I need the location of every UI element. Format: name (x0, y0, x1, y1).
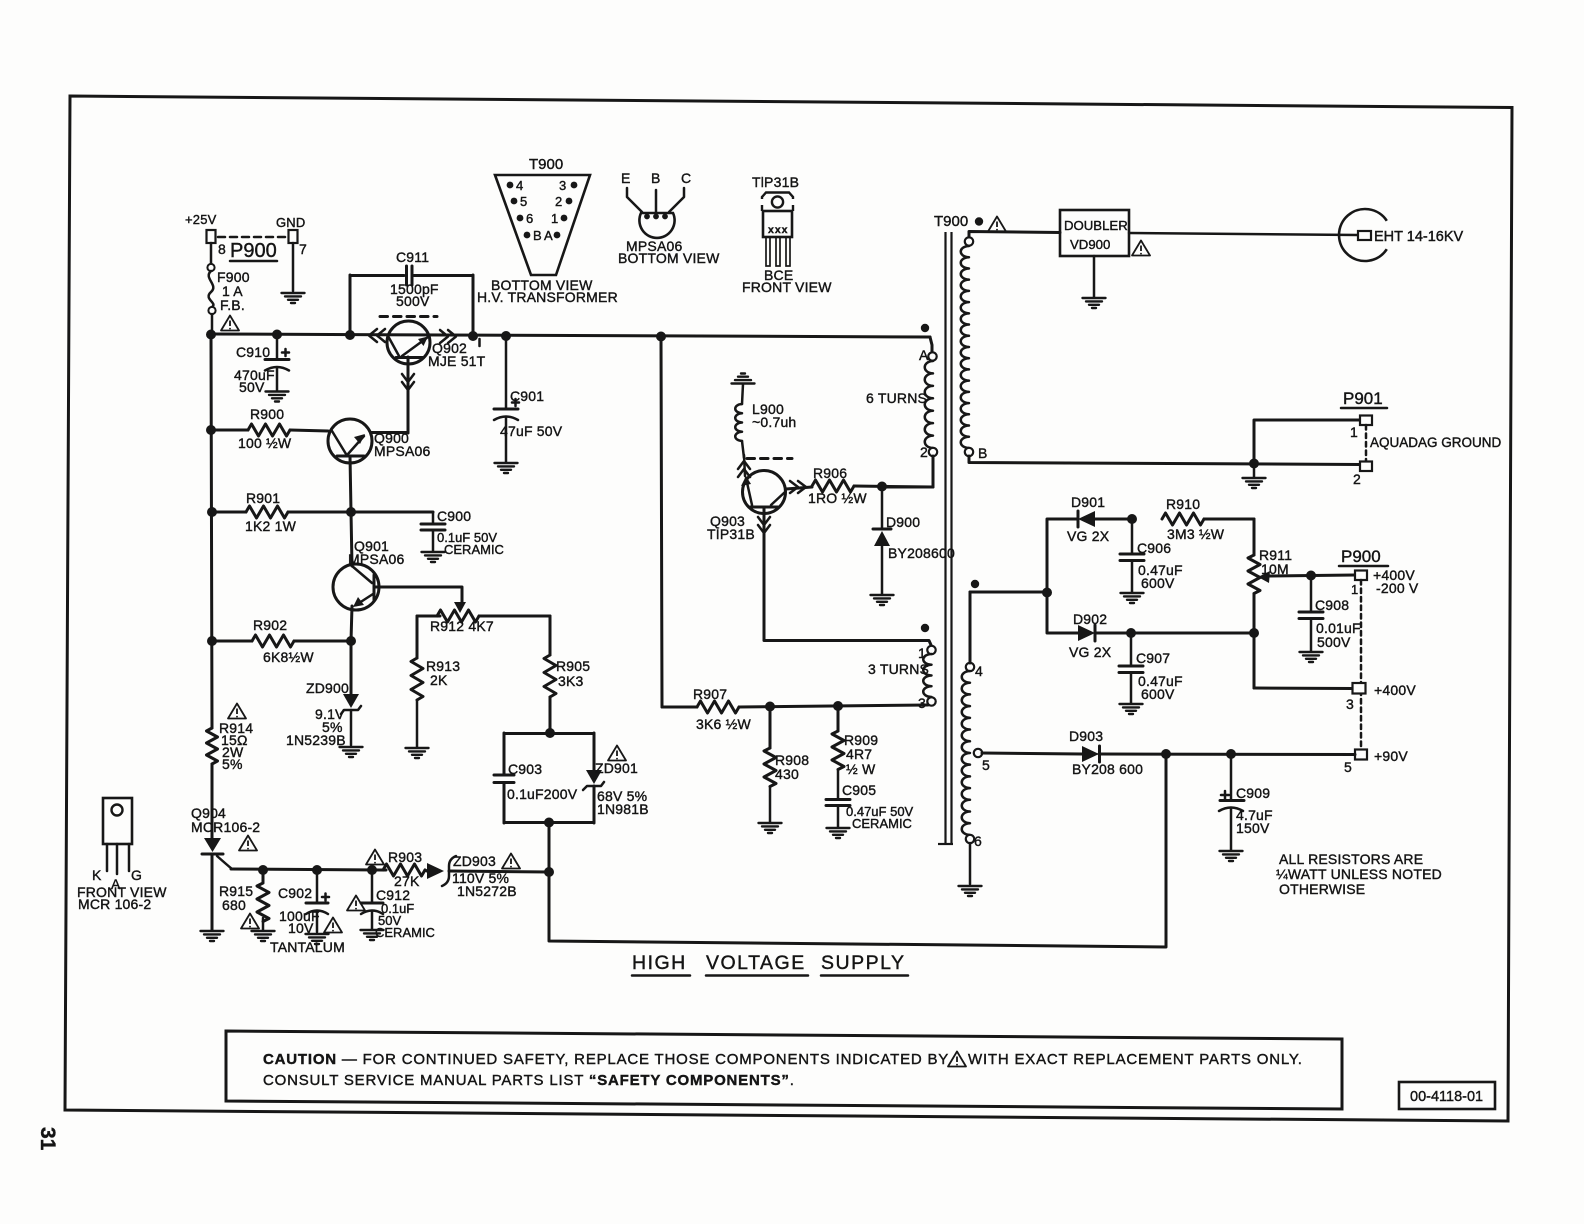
node C910 tap (272, 330, 282, 340)
resistor R900 (211, 406, 328, 451)
svg-text:CERAMIC: CERAMIC (852, 816, 912, 831)
svg-text:5%: 5% (222, 756, 243, 772)
svg-text:xxx: xxx (768, 224, 789, 236)
svg-text:FRONT VIEW: FRONT VIEW (742, 279, 832, 295)
node C911 right (468, 331, 478, 341)
svg-text:¼WATT UNLESS NOTED: ¼WATT UNLESS NOTED (1276, 866, 1442, 882)
svg-text:3K3: 3K3 (558, 673, 584, 689)
svg-text:6: 6 (526, 211, 533, 226)
svg-text:P900: P900 (1341, 547, 1381, 566)
svg-text:~0.7uh: ~0.7uh (752, 414, 796, 430)
connector P900 pin 8 (+25V) (185, 212, 226, 257)
capacitor C906 (1120, 519, 1183, 592)
node C908 tap (1306, 571, 1316, 581)
svg-text:47uF 50V: 47uF 50V (500, 423, 563, 439)
svg-text:10M: 10M (1261, 561, 1289, 577)
svg-text:BOTTOM VIEW: BOTTOM VIEW (618, 250, 720, 266)
svg-text:R907: R907 (693, 686, 727, 702)
svg-text:CONSULT SERVICE MANUAL PARTS L: CONSULT SERVICE MANUAL PARTS LIST “SAFET… (263, 1072, 795, 1089)
resistor R914 (207, 704, 254, 773)
ground (C910) (266, 392, 289, 402)
svg-text:C900: C900 (437, 508, 471, 524)
wire pin4 riser to doubler diodes (970, 592, 1047, 663)
ground (C902) (306, 934, 329, 944)
potentiometer R912 (417, 602, 550, 634)
transistor Q902 MJE51T (380, 317, 486, 370)
svg-text:B: B (533, 228, 542, 243)
zener ZD903 (427, 853, 549, 899)
svg-text:3 TURNS: 3 TURNS (868, 661, 929, 677)
wire dashes at Q903 (747, 457, 792, 460)
svg-text:+400V: +400V (1374, 682, 1416, 698)
svg-text:CERAMIC: CERAMIC (375, 925, 435, 940)
svg-text:6K8½W: 6K8½W (263, 649, 314, 665)
svg-text:680: 680 (222, 897, 246, 913)
svg-text:CERAMIC: CERAMIC (444, 542, 504, 557)
svg-text:5: 5 (982, 757, 990, 773)
ground (Q904 cathode) (201, 931, 224, 941)
node ZD903 junction (544, 867, 554, 877)
svg-text:1N5239B: 1N5239B (286, 732, 346, 748)
ground (C908) (1300, 652, 1323, 662)
svg-text:B: B (978, 445, 988, 461)
ground (GND pin 7) (282, 293, 305, 303)
wire pin6 to ground (969, 843, 972, 884)
wire secondary top to doubler (969, 232, 1060, 238)
svg-text:500V: 500V (396, 293, 430, 309)
svg-text:OTHERWISE: OTHERWISE (1279, 881, 1365, 897)
capacitor C900 (421, 508, 504, 557)
label P900 (230, 240, 277, 262)
svg-text:E: E (621, 170, 631, 186)
svg-text:6: 6 (974, 833, 982, 849)
svg-text:-200 V: -200 V (1376, 580, 1419, 596)
node C902 tap (312, 865, 322, 875)
ground (C909) (1220, 851, 1243, 861)
node R900 tap (206, 425, 216, 435)
connector P900 pin 7 (GND) (276, 215, 307, 257)
node phasing dot (secondary top) (978, 221, 980, 223)
node C903 box top (545, 728, 555, 738)
doubler VD900 (1060, 210, 1150, 256)
ground (R908) (759, 823, 782, 833)
svg-text:C903: C903 (508, 761, 542, 777)
svg-text:3K6 ½W: 3K6 ½W (696, 716, 751, 732)
svg-text:R910: R910 (1166, 496, 1200, 512)
svg-text:R912 4K7: R912 4K7 (430, 618, 494, 634)
wire main +25V rail horizontal (211, 334, 930, 337)
svg-text:+25V: +25V (185, 212, 217, 227)
transistor Q901 MPSA06 (333, 512, 404, 610)
wire Q901 emitter down (351, 606, 352, 641)
note all resistors (1276, 851, 1442, 897)
capacitor C902 (270, 870, 345, 955)
resistor R905 (544, 616, 590, 733)
resistor R913 (411, 616, 460, 747)
svg-text:MJE 51T: MJE 51T (428, 353, 486, 369)
svg-text:A: A (544, 228, 553, 243)
wire pin7 to ground (292, 243, 295, 291)
svg-text:1: 1 (551, 211, 558, 226)
svg-text:C906: C906 (1137, 540, 1171, 556)
svg-text:1: 1 (1351, 582, 1358, 597)
svg-text:VG 2X: VG 2X (1067, 528, 1110, 544)
diode D900 BY208600 (873, 487, 955, 594)
wire chevrons into Q903 (738, 455, 750, 477)
ground (ZD900) (340, 747, 363, 757)
svg-text:3: 3 (1346, 696, 1354, 712)
svg-text:100 ½W: 100 ½W (238, 435, 292, 451)
resistor R910 (1162, 496, 1254, 542)
svg-text:1N5272B: 1N5272B (457, 883, 517, 899)
resistor R901 (212, 490, 433, 534)
wire Q903 collector to R906 (786, 487, 812, 489)
node D901/D902 left junction (1042, 588, 1052, 598)
svg-text:1: 1 (918, 645, 926, 661)
connector P900 (right) (1339, 547, 1419, 775)
node R902 tap (207, 636, 217, 646)
node C909 tap (1226, 749, 1236, 759)
svg-text:GND: GND (276, 215, 306, 230)
svg-text:B: B (651, 170, 661, 186)
node phasing dot (A) (921, 324, 929, 332)
fuse F900 (207, 243, 249, 334)
ground (D900) (871, 595, 894, 605)
connector P901 (1341, 389, 1502, 487)
svg-text:D900: D900 (886, 514, 920, 530)
svg-text:P900: P900 (230, 240, 277, 262)
ground (R913) (406, 748, 429, 758)
capacitor C903 and zener ZD901 loop (494, 733, 594, 823)
wire pin2 to R906 node (882, 456, 933, 487)
node C912 tap (367, 865, 377, 875)
node R908 tap (765, 702, 775, 712)
svg-text:4: 4 (975, 663, 983, 679)
svg-text:C910: C910 (236, 344, 270, 360)
capacitor C910 (234, 334, 289, 395)
svg-text:5: 5 (1344, 759, 1352, 775)
node R909 tap (833, 701, 843, 711)
resistor R906 (808, 465, 933, 506)
svg-text:VD900: VD900 (1070, 237, 1110, 252)
wire (dashed interconnect pin8 to pin7) (218, 236, 288, 239)
svg-text:T900: T900 (529, 156, 563, 173)
diode D902 VG 2X (1047, 592, 1254, 660)
diode D901 VG 2X (1047, 494, 1132, 592)
svg-text:G: G (131, 867, 142, 883)
svg-text:0.1uF200V: 0.1uF200V (507, 786, 578, 802)
svg-text:R905: R905 (556, 658, 590, 674)
node C907 tap (1126, 628, 1136, 638)
ground (C906) (1121, 593, 1144, 603)
svg-text:430: 430 (775, 766, 799, 782)
svg-text:WITH EXACT REPLACEMENT PARTS O: WITH EXACT REPLACEMENT PARTS ONLY. (968, 1051, 1303, 1068)
capacitor C901 (494, 336, 563, 462)
svg-text:C909: C909 (1236, 785, 1270, 801)
SCR Q904 MCR106-2 (191, 805, 260, 930)
node R915 tap (258, 865, 268, 875)
node P901 ground tap (1249, 459, 1259, 469)
svg-text:R901: R901 (246, 490, 280, 506)
svg-text:EHT 14-16KV: EHT 14-16KV (1374, 229, 1464, 245)
resistor R915 (219, 870, 269, 930)
resistor R902 (212, 617, 351, 665)
doc number box (1399, 1082, 1495, 1109)
winding secondary top (EHT) (961, 232, 988, 461)
svg-text:7: 7 (299, 241, 307, 257)
EHT anode cap connector (1339, 209, 1464, 261)
svg-text:3: 3 (559, 178, 566, 193)
capacitor C909 (1219, 754, 1273, 850)
transistor Q903 TIP31B (707, 471, 786, 543)
svg-text:VG 2X: VG 2X (1069, 644, 1112, 660)
svg-text:R900: R900 (250, 406, 284, 422)
svg-text:00-4118-01: 00-4118-01 (1410, 1089, 1483, 1105)
winding secondary bottom (taps 4,5,6) (962, 592, 990, 849)
svg-text:27K: 27K (394, 873, 420, 889)
ground (P901) (1253, 463, 1256, 477)
node C901 tap (501, 331, 511, 341)
node Q901 base tap (346, 507, 356, 517)
svg-text:ALL RESISTORS ARE: ALL RESISTORS ARE (1279, 851, 1423, 867)
svg-text:MPSA06: MPSA06 (348, 551, 404, 567)
svg-text:HIGH: HIGH (632, 952, 687, 974)
svg-text:SUPPLY: SUPPLY (821, 952, 906, 974)
ground (T900 pin6) (959, 886, 982, 896)
svg-text:600V: 600V (1141, 575, 1175, 591)
wire chevrons Q902 left (369, 329, 385, 342)
ground (doubler) (1083, 298, 1106, 308)
node C911 left (345, 330, 355, 340)
wire Q902 emitter down to Q900 (371, 357, 414, 433)
svg-text:D903: D903 (1069, 728, 1103, 744)
svg-text:R902: R902 (253, 617, 287, 633)
wire long drop to R907 (661, 336, 662, 707)
resistor R908 (764, 707, 809, 822)
wire chevrons Q903 collector (790, 481, 806, 493)
wire secondary B to P901 (969, 456, 1360, 465)
svg-text:MCR106-2: MCR106-2 (191, 819, 260, 835)
ground (C901) (495, 463, 518, 473)
svg-text:31: 31 (36, 1127, 59, 1151)
wire Q901 collector to R912 (375, 587, 462, 603)
node C903 box bottom (544, 818, 554, 828)
svg-text:H.V. TRANSFORMER: H.V. TRANSFORMER (477, 289, 618, 305)
svg-text:1RO ½W: 1RO ½W (808, 490, 867, 506)
svg-text:C907: C907 (1136, 650, 1170, 666)
potentiometer R911 (1248, 519, 1355, 688)
svg-text:C911: C911 (396, 249, 429, 265)
svg-text:ZD901: ZD901 (595, 760, 638, 776)
svg-text:TIP31B: TIP31B (707, 526, 755, 542)
TIP31B front view (742, 174, 832, 295)
svg-text:50V: 50V (239, 379, 265, 395)
wire chevrons Q902 right (440, 330, 456, 343)
svg-text:C905: C905 (842, 782, 876, 798)
svg-text:T900: T900 (934, 213, 968, 230)
svg-text:C908: C908 (1315, 597, 1349, 613)
svg-text:150V: 150V (1236, 820, 1270, 836)
capacitor C908 (1299, 576, 1361, 651)
svg-text:R903: R903 (388, 849, 422, 865)
winding 3 TURNS (868, 645, 936, 711)
svg-text:BY208 600: BY208 600 (1072, 761, 1143, 777)
wire Q903 emitter to winding pin1 (758, 507, 931, 645)
node R911/D902 junction (1249, 628, 1259, 638)
svg-text:C901: C901 (510, 388, 544, 404)
node bottom bus riser (1161, 749, 1171, 759)
node D900 tap (877, 482, 887, 492)
svg-text:4R7: 4R7 (846, 746, 872, 762)
svg-text:C: C (681, 170, 691, 186)
MPSA06 bottom view (618, 170, 720, 266)
svg-text:MCR 106-2: MCR 106-2 (78, 896, 151, 912)
capacitor C905 (826, 782, 914, 831)
svg-text:2: 2 (555, 194, 562, 209)
svg-text:4: 4 (516, 178, 523, 193)
transistor Q900 MPSA06 (328, 419, 430, 463)
svg-text:AQUADAG GROUND: AQUADAG GROUND (1370, 435, 1502, 450)
wire Q900 base down (350, 456, 351, 512)
winding 6 TURNS (primary) (866, 337, 937, 460)
resistor R903 (366, 849, 427, 889)
transformer T900 core (934, 213, 1006, 844)
svg-text:2K: 2K (430, 672, 448, 688)
wire doubler to EHT (1129, 233, 1358, 235)
node ZD900 tap (346, 636, 356, 646)
svg-text:VOLTAGE: VOLTAGE (706, 952, 806, 974)
svg-text:1N981B: 1N981B (597, 801, 649, 817)
wire doubler to ground (1093, 256, 1096, 297)
svg-text:K: K (92, 867, 102, 883)
diode D903 BY208 600 (982, 728, 1355, 777)
svg-text:2: 2 (1353, 471, 1361, 487)
ground (R915) (252, 931, 275, 941)
svg-text:D902: D902 (1073, 611, 1107, 627)
svg-text:3M3 ½W: 3M3 ½W (1167, 526, 1225, 542)
svg-text:R906: R906 (813, 465, 847, 481)
wire Q904 gate row (231, 869, 386, 870)
node R907 drop (656, 332, 666, 342)
svg-text:8: 8 (218, 241, 226, 257)
svg-text:600V: 600V (1141, 686, 1175, 702)
node C906 tap (1127, 514, 1137, 524)
capacitor C912 (347, 870, 435, 940)
svg-text:P901: P901 (1343, 389, 1383, 408)
zener ZD901 (583, 733, 649, 823)
ground (C905) (827, 828, 850, 838)
svg-text:ZD900: ZD900 (306, 680, 349, 696)
svg-text:DOUBLER: DOUBLER (1064, 218, 1128, 233)
svg-text:3: 3 (918, 695, 926, 711)
ground (C912) (361, 930, 384, 940)
node phasing dot (pin1) (921, 624, 929, 632)
node main rail left (206, 330, 216, 340)
svg-text:5: 5 (520, 194, 527, 209)
svg-text:TANTALUM: TANTALUM (270, 939, 345, 955)
wire rail to Q904 (211, 764, 214, 839)
wire P901 pin1 (1254, 420, 1360, 463)
wire box bottom to ZD903 row and bottom bus (549, 754, 1166, 947)
ground (C907) (1120, 704, 1143, 714)
svg-text:1K2 1W: 1K2 1W (245, 518, 297, 534)
svg-text:½ W: ½ W (846, 761, 876, 777)
resistor R907 (662, 686, 928, 732)
capacitor C907 (1119, 633, 1183, 703)
zener ZD900 (286, 641, 361, 748)
safety warning triangle (F900) (221, 316, 239, 331)
package front view MCR106-2 (77, 798, 167, 912)
caution box (226, 1031, 1342, 1109)
svg-text:+90V: +90V (1374, 748, 1408, 764)
border frame (65, 96, 1512, 1121)
capacitor C911 (350, 249, 473, 336)
svg-text:ZD903: ZD903 (453, 853, 496, 869)
node R901 tap (207, 507, 217, 517)
wire R911 bottom to pin3 (1254, 687, 1352, 691)
svg-text:2: 2 (920, 444, 928, 460)
svg-text:6 TURNS: 6 TURNS (866, 390, 927, 406)
svg-text:A: A (919, 347, 929, 363)
ground (C900) (422, 552, 445, 562)
wire left rail vertical (211, 334, 212, 728)
svg-text:C902: C902 (278, 885, 312, 901)
svg-text:MPSA06: MPSA06 (374, 443, 430, 459)
svg-text:1: 1 (1350, 424, 1358, 440)
svg-text:F.B.: F.B. (220, 297, 245, 313)
svg-text:CAUTION — FOR CONTINUED SAFETY: CAUTION — FOR CONTINUED SAFETY, REPLACE … (263, 1051, 949, 1068)
svg-text:TlP31B: TlP31B (752, 174, 799, 190)
inductor L900 with top ground (732, 374, 755, 384)
node phasing dot (pin4) (971, 580, 979, 588)
T900 bottom view trapezoid (477, 156, 618, 305)
svg-text:500V: 500V (1317, 634, 1351, 650)
svg-text:D901: D901 (1071, 494, 1105, 510)
resistor R909 (832, 707, 878, 798)
